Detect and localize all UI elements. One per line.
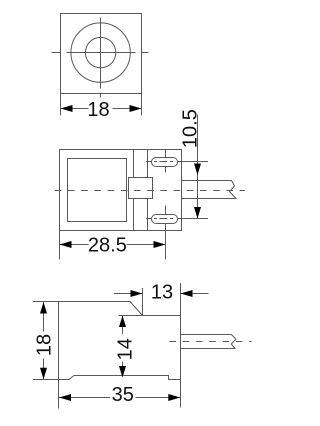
svg-text:35: 35	[112, 384, 134, 406]
bottom view: right edge and extension line	[180, 283, 182, 408]
dimension 28.5: dimension line	[60, 244, 166, 246]
top view: outer circle	[71, 23, 130, 82]
dimension 18 (top view) dimension line	[61, 108, 142, 110]
dimension 10.5: lower arrowhead (points down)	[194, 207, 201, 219]
dimension 28.5: left arrowhead	[60, 241, 72, 248]
top view: left extension line	[60, 94, 62, 116]
dimension 10.5: upper arrowhead (points down)	[194, 164, 201, 176]
dimension 13: right arrowhead (points left)	[181, 290, 193, 297]
dimension 10.5: bottom reference tick	[188, 218, 208, 220]
side view: body outline	[60, 150, 182, 231]
svg-text:13: 13	[151, 281, 173, 303]
side view: top slot horizontal centerline	[146, 161, 208, 163]
top view: vertical centerline	[100, 18, 102, 98]
bottom view: dashed cable centerline	[170, 341, 252, 343]
dimension 13: left arrowhead (points right)	[131, 290, 143, 297]
dimension 13: dimension line	[114, 293, 209, 295]
side view: internal vertical line 1	[133, 150, 135, 231]
top view: horizontal centerline	[52, 52, 149, 54]
dimension 18 (bottom view): up arrowhead	[40, 302, 47, 314]
side view: cable outline with break	[182, 181, 237, 199]
dimension 35: dimension line	[59, 397, 180, 399]
side view: top mounting slot	[152, 158, 178, 167]
dimension 14: up arrowhead	[119, 316, 126, 328]
svg-text:28.5: 28.5	[88, 235, 127, 257]
dimension 10.5: dimension line	[197, 115, 199, 219]
dimension 10.5: top reference tick	[188, 161, 208, 163]
bottom view: cable outline with break	[181, 335, 237, 349]
top view: square body outline	[61, 14, 142, 94]
bottom view: body profile outline	[59, 302, 181, 380]
dimension 18 (bottom view): down arrowhead	[40, 368, 47, 380]
dimension 13: left extension line	[142, 288, 144, 316]
side view: bottom slot vertical centerline and 28.5 right extension line	[165, 206, 167, 260]
side view: clamp block	[129, 178, 153, 199]
dimension 35: left arrowhead	[59, 394, 71, 401]
svg-text:10.5: 10.5	[180, 109, 202, 148]
top view: right extension line	[141, 94, 143, 116]
dimension 28.5: left extension line	[59, 231, 61, 260]
dimension 35: right arrowhead	[168, 394, 180, 401]
svg-text:18: 18	[87, 99, 109, 121]
dimension 14: dimension line	[122, 316, 124, 376]
side view: dashed axis centerline	[55, 190, 245, 192]
side view: bottom slot horizontal centerline	[146, 218, 208, 220]
side view: internal vertical line 2	[147, 150, 149, 231]
svg-text:18: 18	[33, 334, 55, 356]
side view: top slot vertical centerline	[165, 150, 167, 173]
top view: inner circle	[85, 37, 115, 67]
dimension 14: down arrowhead	[119, 366, 126, 378]
dimension 14: top reference tick	[119, 315, 143, 317]
dimension 18 (bottom view): top extension tick	[33, 301, 59, 303]
dimension 18 (bottom view): dimension line	[43, 302, 45, 379]
dimension 18 (bottom view): bottom extension tick	[33, 379, 59, 381]
dimension 18 (top view): left arrowhead	[61, 105, 73, 112]
svg-text:14: 14	[115, 338, 137, 360]
dimension 28.5: right arrowhead	[154, 241, 166, 248]
dimension 35: left extension line	[58, 380, 60, 409]
side view: sensing face square	[68, 159, 127, 222]
dimension 18 (top view): right arrowhead	[130, 105, 142, 112]
side view: bottom mounting slot	[152, 215, 178, 224]
